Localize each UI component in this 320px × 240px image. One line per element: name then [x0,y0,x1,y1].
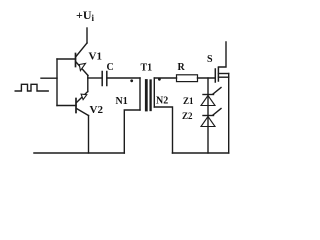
svg-text:T1: T1 [141,63,153,74]
MOSFET S drain lead [219,42,227,67]
zener Z1 [201,88,221,106]
capacitor C [102,72,107,86]
node mid column between V1 emitter and V2 collector [87,76,89,92]
wire V2 emitter to ground rail [88,116,90,154]
svg-text:R: R [178,62,186,73]
svg-text:N1: N1 [116,96,128,107]
polarity dot N1 [130,79,133,82]
transistor V1 [76,43,89,76]
resistor R [177,75,198,82]
wire capacitor to T1 primary [107,77,140,79]
wire resistor to gate node [198,77,216,79]
polarity dot N2 [158,78,161,81]
zener Z2 [201,109,221,127]
wire base bus vertical [56,59,58,106]
square-wave input symbol [15,84,48,91]
svg-text:V1: V1 [89,51,102,63]
transformer T1 primary N1 winding lead [139,78,141,110]
svg-text:Z2: Z2 [182,111,193,121]
transistor V2 [76,92,89,116]
wire zener riser [207,78,209,153]
wire input to base bus [41,77,57,79]
svg-text:C: C [107,62,114,73]
svg-text:V2: V2 [90,104,104,116]
MOSFET S channel bar [217,68,219,82]
wire N2 bottom jog to right rail [154,107,172,153]
wire right ground rail [173,152,229,154]
wire N1 bottom jog to rail [124,110,140,153]
wire mid node to capacitor [88,77,102,79]
MOSFET S gate bar [214,69,216,82]
wire V2 base lead [57,105,76,107]
svg-text:N2: N2 [156,96,168,107]
transformer T1 secondary N2 winding lead [153,78,155,107]
wire V1 collector to +Ui [86,28,88,43]
MOSFET S source lead down to rail [228,74,230,154]
transformer T1 core [146,81,150,111]
svg-text:S: S [207,54,213,65]
svg-text:+Ui: +Ui [76,8,95,23]
wire N2 to resistor R [154,77,176,79]
wire V1 base lead [57,58,76,60]
svg-text:Z1: Z1 [183,96,194,106]
MOSFET S source contacts [219,73,229,75]
wire left ground rail [34,152,124,154]
